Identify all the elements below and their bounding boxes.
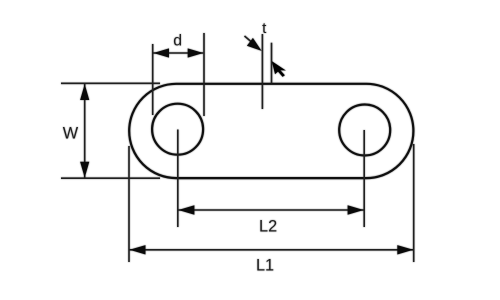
crisp drawing (61, 20, 414, 275)
soft halo underlay (61, 20, 414, 275)
